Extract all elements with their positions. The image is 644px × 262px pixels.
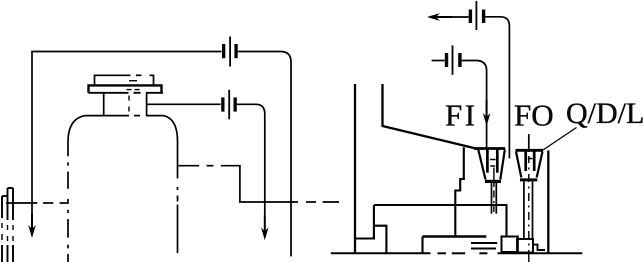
funnel F1 inner tube	[487, 149, 497, 173]
machine right wall	[547, 151, 549, 254]
funnel F1 rim	[474, 147, 505, 150]
neck phantom dashes	[128, 96, 130, 112]
coupling V4	[445, 45, 462, 75]
coupling V2 on inner line	[221, 90, 237, 120]
leader line to funnel F2	[543, 128, 577, 151]
pump box	[502, 237, 518, 253]
drain box under funnel F2	[517, 239, 533, 253]
funnel F2 cup walls	[516, 152, 543, 178]
pipe centerline from fitting to tank	[6, 202, 69, 204]
funnel F1 cup walls	[478, 150, 505, 180]
bottom-left step	[355, 205, 374, 239]
funnel F2 rim	[516, 149, 544, 152]
tank cap lower plate	[89, 85, 164, 92]
band left leg	[421, 237, 423, 254]
tank left side (phantom dash-dot)	[67, 142, 69, 262]
tank right side (phantom dash-dot)	[177, 141, 179, 253]
funnel F2 collar	[520, 178, 537, 181]
arrow A4 (down into funnel F1)	[483, 100, 491, 127]
wire from coupling V3 down right side	[485, 17, 509, 158]
wire inner line from tank neck with down arrow	[147, 104, 265, 216]
funnel F1 center dash-dot	[493, 168, 495, 213]
arrow A1 (down, on outer loop left leg)	[28, 214, 36, 238]
cap phantom dashes	[127, 81, 140, 90]
machine outer left wall	[354, 84, 356, 253]
tank neck	[104, 93, 147, 116]
second top line	[432, 60, 445, 62]
tank dome top	[68, 116, 178, 142]
funnel F2 inner tube	[526, 150, 535, 171]
base band	[423, 235, 487, 238]
small shelf	[374, 226, 387, 254]
tank cap top plate	[95, 75, 154, 85]
wire outer loop top+left with down arrow	[32, 52, 291, 257]
left fitting phantom dashes	[2, 223, 13, 241]
interior stepped wall	[455, 147, 464, 236]
funnel F1 stem	[492, 183, 497, 214]
funnel F2 inner dash	[528, 158, 533, 160]
ground baseline	[331, 252, 583, 254]
top line with left arrow	[446, 16, 469, 18]
arrow A2 (down, into machine line)	[261, 215, 269, 240]
funnel F2 center dash-dot down	[528, 156, 530, 262]
wire from coupling V4 down to funnel F1	[462, 61, 487, 149]
pedestal top rail	[374, 205, 507, 236]
funnel F1 collar	[485, 180, 501, 183]
machine inner wall + roof slant	[383, 84, 478, 149]
svg-text:FO: FO	[514, 98, 554, 133]
coupling V3	[469, 1, 486, 30]
funnel F2 center line solid above rim	[528, 134, 530, 152]
funnel F2 stem	[524, 181, 533, 239]
svg-text:FI: FI	[445, 98, 478, 133]
left drain fitting walls	[2, 188, 13, 262]
funnel F1 inner dashes	[490, 160, 496, 167]
drain step right	[533, 245, 545, 250]
coupling V1 on outer loop	[222, 37, 238, 67]
arrow A3 (pointing left)	[427, 13, 452, 21]
phantom jog line from tank right side	[178, 166, 339, 202]
svg-text:Q/D/L: Q/D/L	[566, 97, 644, 130]
comb lines	[471, 242, 497, 244]
